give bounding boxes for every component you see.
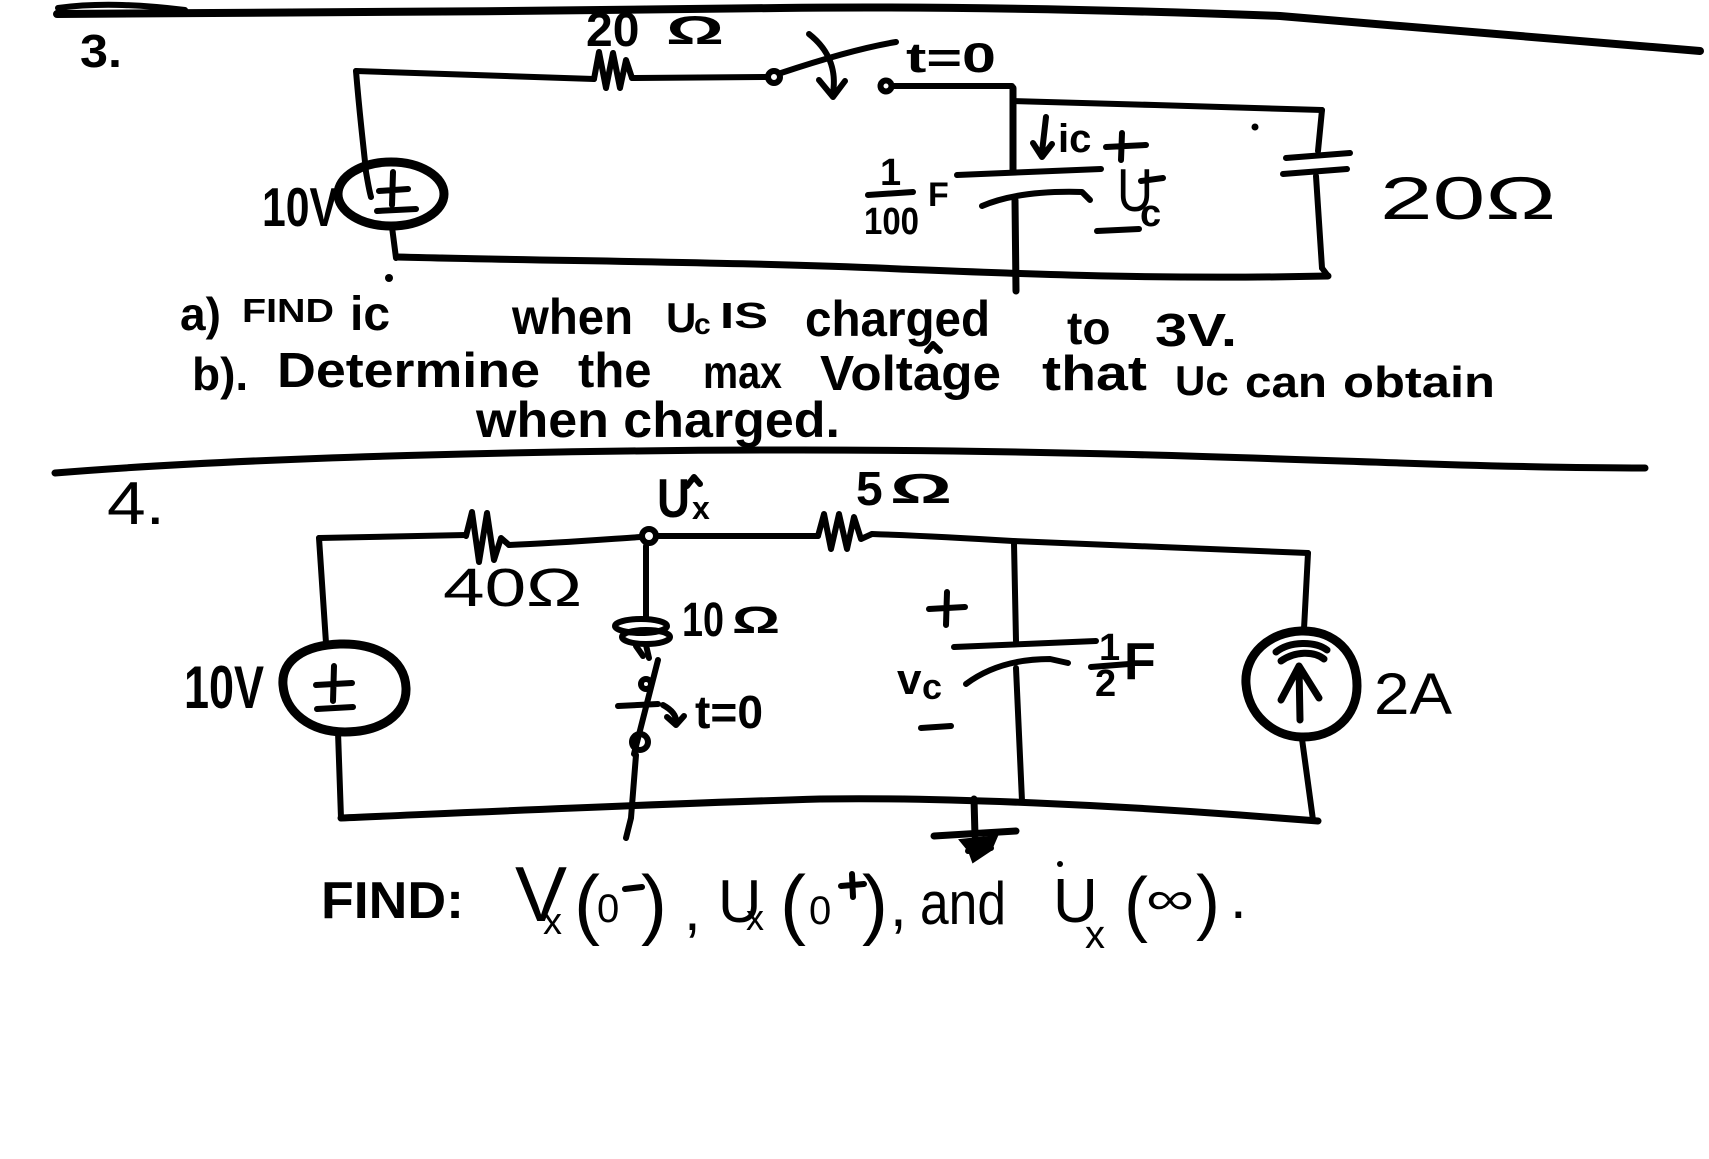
svg-text:when charged.: when charged. (475, 392, 840, 448)
svg-text:FIND: FIND (242, 292, 334, 329)
svg-text:5: 5 (856, 463, 883, 516)
svg-text:20: 20 (586, 4, 639, 57)
svg-text:,: , (684, 876, 701, 943)
svg-text:20Ω: 20Ω (1380, 165, 1556, 232)
svg-text:ic: ic (1058, 117, 1091, 161)
svg-text:Uc: Uc (1175, 357, 1229, 404)
svg-text:and: and (920, 870, 1006, 937)
svg-text:2: 2 (1095, 663, 1116, 705)
svg-text:charged: charged (805, 291, 990, 347)
svg-text:Ω: Ω (666, 9, 724, 53)
svg-text:(: ( (1124, 864, 1148, 944)
svg-text:): ) (641, 859, 667, 947)
svg-text:Ω: Ω (890, 465, 952, 512)
svg-text:ic: ic (350, 288, 390, 341)
svg-text:a): a) (180, 288, 221, 340)
svg-text:3V.: 3V. (1155, 304, 1237, 356)
svg-text:b).: b). (192, 348, 248, 400)
svg-text:4.: 4. (107, 470, 165, 537)
svg-text:Voltage: Voltage (820, 347, 1001, 401)
svg-text:F: F (1124, 633, 1156, 691)
svg-text:max: max (703, 346, 782, 398)
svg-text:that: that (1042, 347, 1147, 401)
svg-text:10V: 10V (262, 176, 338, 238)
svg-text:t=0: t=0 (906, 34, 996, 81)
svg-text:): ) (862, 859, 888, 947)
svg-text:10: 10 (682, 594, 724, 647)
svg-text:c: c (694, 308, 711, 341)
svg-text:obtain: obtain (1343, 358, 1495, 407)
svg-text:FIND:: FIND: (321, 872, 464, 930)
svg-text:x: x (543, 901, 562, 943)
svg-text:U: U (666, 294, 696, 341)
svg-text:100: 100 (864, 201, 919, 243)
svg-text:when: when (511, 289, 633, 345)
svg-text:c: c (1140, 193, 1161, 235)
svg-text:2A: 2A (1374, 662, 1452, 727)
svg-text:,: , (890, 872, 907, 939)
svg-text:IS: IS (720, 295, 768, 336)
svg-text:can: can (1245, 358, 1327, 407)
svg-text:F: F (928, 176, 949, 214)
svg-text:(: ( (780, 859, 806, 947)
svg-text:10V: 10V (184, 654, 264, 721)
svg-text:Determine: Determine (277, 344, 540, 398)
svg-text:0: 0 (809, 889, 831, 933)
svg-text:x: x (1085, 913, 1105, 957)
svg-text:x: x (746, 897, 764, 938)
svg-text:40Ω: 40Ω (443, 558, 582, 618)
svg-text:3.: 3. (80, 25, 122, 77)
svg-text:Ω: Ω (732, 600, 780, 642)
svg-text:v: v (897, 655, 922, 704)
svg-text:U: U (657, 467, 690, 529)
svg-text:t=0: t=0 (695, 686, 763, 738)
svg-text:the: the (578, 344, 652, 398)
svg-text:1: 1 (880, 152, 901, 194)
svg-text:): ) (1196, 862, 1220, 942)
svg-text:0: 0 (597, 887, 619, 931)
svg-text:c: c (922, 666, 942, 707)
svg-text:.: . (1230, 864, 1247, 931)
svg-text:x: x (692, 490, 710, 526)
svg-text:∞: ∞ (1146, 872, 1194, 924)
